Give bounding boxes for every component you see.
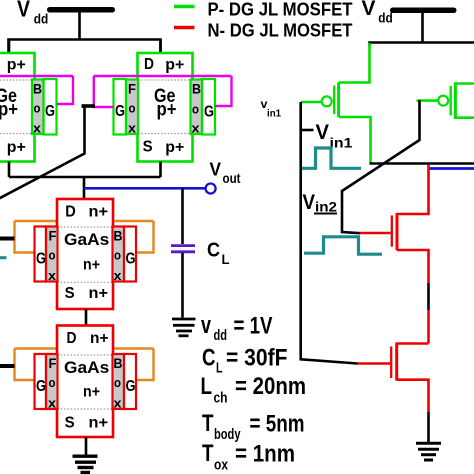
svg-text:G: G bbox=[36, 378, 46, 395]
svg-text:GaAs: GaAs bbox=[64, 358, 109, 377]
Vdd power bar left bbox=[47, 7, 115, 13]
svg-text:x: x bbox=[33, 121, 42, 136]
wire M1 source down bbox=[8, 162, 11, 178]
svg-text:p+: p+ bbox=[165, 139, 184, 156]
svg-text:= 30fF: = 30fF bbox=[226, 345, 288, 372]
svg-text:in1: in1 bbox=[267, 109, 281, 120]
svg-text:o: o bbox=[192, 102, 199, 117]
svg-text:p+: p+ bbox=[157, 100, 177, 121]
transistor Q4 NMOS symbol (right schematic) bbox=[358, 343, 429, 413]
M4 right gate box bbox=[124, 354, 136, 409]
M2 left gate box bbox=[114, 79, 127, 135]
svg-text:x: x bbox=[192, 121, 201, 136]
wire Vdd to left rail bbox=[78, 12, 81, 40]
svg-text:p+: p+ bbox=[7, 57, 26, 74]
Q4 source lead bbox=[397, 380, 429, 412]
M4 left gate box bbox=[35, 354, 47, 409]
svg-text:F: F bbox=[128, 81, 136, 97]
wire input A down-left bbox=[0, 106, 85, 199]
capacitor CL bbox=[171, 246, 195, 252]
svg-text:o: o bbox=[114, 248, 121, 263]
wire to load capacitor bbox=[181, 188, 184, 244]
svg-text:L: L bbox=[222, 251, 230, 267]
svg-text:G: G bbox=[36, 251, 46, 268]
Vdd label left bbox=[17, 0, 48, 27]
svg-text:L: L bbox=[216, 360, 223, 377]
wire teal fragment bbox=[0, 256, 7, 259]
Vdd power bar right bbox=[390, 8, 457, 14]
svg-text:V: V bbox=[362, 0, 376, 20]
wire Q3-Q4 red segment bbox=[427, 310, 430, 344]
Q4 drain lead bbox=[397, 342, 429, 345]
svg-text:V: V bbox=[17, 0, 31, 22]
M3 dotted junction lines bbox=[58, 227, 113, 282]
svg-text:o: o bbox=[114, 375, 121, 390]
Q2 drain lead bbox=[454, 116, 474, 119]
Vdd label right bbox=[362, 0, 393, 26]
M1 right gate box bbox=[44, 79, 57, 135]
svg-text:n+: n+ bbox=[83, 384, 100, 401]
svg-text:P- DG JL MOSFET: P- DG JL MOSFET bbox=[208, 0, 353, 20]
svg-text:x: x bbox=[48, 268, 57, 283]
waveform Vin2 teal bbox=[304, 237, 382, 254]
node Vout terminal bbox=[206, 184, 216, 194]
Q2 gate bubble bbox=[438, 96, 448, 106]
svg-text:o: o bbox=[34, 101, 41, 116]
transistor M1 PMOS cross-section (left, clipped) bbox=[0, 40, 73, 178]
M3 left gate box bbox=[35, 227, 47, 282]
M1 dotted junction lines bbox=[0, 80, 34, 134]
svg-text:p+: p+ bbox=[7, 139, 26, 156]
svg-text:x: x bbox=[114, 396, 123, 411]
transistor M2 PMOS cross-section bbox=[94, 40, 232, 178]
Q2 source lead bbox=[454, 82, 474, 85]
svg-text:D: D bbox=[144, 56, 154, 73]
transistor Q3 NMOS symbol (right schematic) bbox=[360, 165, 429, 284]
M2 dotted junction lines bbox=[138, 80, 192, 134]
wire M1 drain to rail bbox=[8, 40, 11, 54]
Q1 drain lead bbox=[339, 117, 371, 163]
CL label bbox=[207, 240, 230, 268]
svg-text:N- DG JL MOSFET: N- DG JL MOSFET bbox=[208, 21, 353, 41]
M3 body bbox=[57, 199, 113, 309]
wire M3 source to M4 drain bbox=[85, 309, 88, 326]
M3 gate wire orange bbox=[15, 221, 154, 253]
wire M2 drain to rail bbox=[159, 40, 162, 54]
Vin1 label bbox=[301, 121, 353, 151]
svg-text:V: V bbox=[303, 191, 316, 214]
svg-text:T: T bbox=[202, 440, 214, 467]
Q3 gate lead bbox=[360, 232, 391, 235]
svg-text:D: D bbox=[67, 330, 77, 347]
wire M2 source down bbox=[159, 162, 162, 178]
Q3 channel bar bbox=[396, 213, 399, 250]
wire Vin1 net black bbox=[301, 102, 358, 364]
transistor Q2 PMOS symbol (right schematic) bbox=[417, 84, 474, 118]
wire left top rail bbox=[9, 40, 161, 54]
svg-text:S: S bbox=[65, 415, 75, 432]
small vin1 label bbox=[261, 97, 282, 120]
svg-text:F: F bbox=[49, 355, 57, 371]
Q3 source lead bbox=[397, 250, 429, 283]
wire PMOS common source rail bbox=[9, 176, 161, 179]
svg-text:B: B bbox=[33, 81, 42, 97]
svg-text:B: B bbox=[114, 355, 123, 371]
wire M4 source to ground bbox=[85, 437, 88, 456]
svg-text:n+: n+ bbox=[90, 330, 109, 347]
parameter text vdd bbox=[201, 312, 273, 344]
M2 body bbox=[138, 53, 193, 162]
Q3 gate bar bbox=[391, 215, 393, 246]
svg-text:= 1nm: = 1nm bbox=[235, 441, 295, 468]
Q4 gate lead bbox=[358, 362, 391, 365]
parameter text Lch bbox=[201, 373, 307, 407]
Vout label bbox=[210, 160, 241, 187]
svg-text:x: x bbox=[48, 396, 57, 411]
M2 Box oxide bbox=[191, 80, 203, 135]
Q1 gate bubble bbox=[322, 96, 332, 106]
M1 gate wire magenta bbox=[0, 76, 73, 104]
svg-text:G: G bbox=[126, 251, 136, 268]
wire right top rail bbox=[370, 43, 474, 47]
wire capacitor to ground bbox=[181, 253, 184, 318]
svg-text:o: o bbox=[49, 248, 56, 263]
svg-text:C: C bbox=[202, 345, 216, 372]
Q2 gate lead bbox=[417, 99, 439, 102]
Q4 gate bar bbox=[390, 347, 392, 379]
svg-text:V: V bbox=[210, 160, 222, 180]
parameter text Tox bbox=[202, 440, 295, 474]
Q1 source lead bbox=[339, 43, 370, 83]
ground capacitor bbox=[172, 319, 196, 336]
M3 Fox oxide bbox=[46, 227, 58, 282]
wire right output node bbox=[370, 162, 474, 165]
svg-text:= 1V: = 1V bbox=[234, 313, 273, 340]
svg-text:x: x bbox=[128, 121, 137, 136]
svg-text:G: G bbox=[115, 103, 125, 120]
parameter text Tbody bbox=[202, 410, 305, 443]
svg-text:in1: in1 bbox=[330, 135, 353, 151]
Vin2 label bbox=[303, 191, 338, 215]
svg-text:o: o bbox=[129, 101, 136, 116]
M4 dotted junction lines bbox=[58, 355, 113, 409]
wire Vout blue bbox=[84, 187, 206, 190]
Q2 channel bar bbox=[454, 84, 457, 118]
Q2 gate bar bbox=[450, 86, 452, 116]
M3 right gate box bbox=[124, 227, 136, 282]
svg-text:C: C bbox=[207, 240, 220, 262]
transistor M4 NMOS cross-section (bottom GaAs) bbox=[0, 326, 154, 456]
Q1 channel bar bbox=[337, 83, 340, 118]
Q1 gate lead bbox=[301, 101, 322, 104]
svg-text:L: L bbox=[201, 373, 213, 400]
wire rail to NMOS drain bbox=[83, 177, 86, 199]
svg-text:T: T bbox=[202, 410, 214, 437]
ground right bbox=[416, 443, 441, 460]
svg-text:= 20nm: = 20nm bbox=[235, 373, 306, 400]
svg-text:F: F bbox=[49, 228, 57, 244]
svg-text:S: S bbox=[143, 139, 153, 156]
svg-text:G: G bbox=[45, 103, 55, 120]
M2 Fox oxide bbox=[126, 80, 138, 135]
wire right Vout blue bbox=[429, 167, 474, 170]
M1 body bbox=[0, 53, 35, 162]
svg-text:B: B bbox=[192, 81, 201, 97]
svg-text:out: out bbox=[223, 170, 241, 186]
svg-text:G: G bbox=[204, 104, 214, 121]
parameter text CL bbox=[202, 345, 288, 377]
M4 Fox oxide bbox=[46, 354, 58, 409]
svg-text:GaAs: GaAs bbox=[64, 230, 109, 249]
svg-text:n+: n+ bbox=[83, 256, 100, 273]
svg-text:dd: dd bbox=[34, 11, 49, 27]
node input C stub bbox=[0, 364, 15, 368]
legend P-DG line bbox=[174, 5, 195, 8]
svg-text:p+: p+ bbox=[165, 57, 184, 74]
svg-text:D: D bbox=[65, 204, 76, 221]
svg-text:ox: ox bbox=[214, 457, 229, 474]
M2 right gate box bbox=[202, 79, 215, 135]
wire Vdd to right rail bbox=[421, 13, 424, 43]
svg-text:ch: ch bbox=[214, 390, 228, 407]
svg-text:G: G bbox=[126, 378, 136, 395]
M2 gate wire magenta bbox=[94, 76, 232, 107]
M4 gate wire orange bbox=[15, 349, 154, 381]
svg-text:p+: p+ bbox=[0, 100, 18, 121]
svg-text:= 5nm: = 5nm bbox=[250, 411, 305, 438]
M4 Box oxide bbox=[113, 354, 125, 409]
M3 Box oxide bbox=[113, 227, 125, 282]
ground M4 bbox=[73, 456, 98, 472]
svg-text:x: x bbox=[114, 268, 123, 283]
svg-text:n+: n+ bbox=[89, 415, 109, 432]
svg-text:o: o bbox=[49, 375, 56, 390]
svg-text:n+: n+ bbox=[89, 204, 109, 221]
Q4 channel bar bbox=[395, 343, 398, 381]
wire Q2 gate to Vin2 net bbox=[342, 100, 420, 233]
svg-text:in2: in2 bbox=[315, 199, 337, 215]
node input A stub bbox=[82, 104, 96, 108]
wire Q3-Q4 black segment bbox=[427, 283, 430, 310]
svg-text:V: V bbox=[316, 121, 330, 144]
svg-text:dd: dd bbox=[214, 327, 228, 344]
M1 Box oxide bbox=[32, 80, 44, 135]
svg-text:v: v bbox=[201, 312, 211, 339]
wire Q4 source to ground bbox=[427, 412, 430, 443]
transistor Q1 PMOS symbol (right schematic) bbox=[301, 43, 371, 163]
node input B stub bbox=[0, 237, 15, 241]
waveform Vin1 teal bbox=[302, 148, 361, 168]
svg-text:B: B bbox=[114, 228, 123, 244]
Q3 drain lead bbox=[397, 165, 429, 215]
svg-text:n+: n+ bbox=[89, 285, 109, 302]
transistor M3 NMOS cross-section (top GaAs) bbox=[0, 199, 154, 326]
Q1 gate bar bbox=[333, 86, 335, 115]
M4 body bbox=[57, 326, 113, 438]
legend N-DG line bbox=[174, 26, 195, 29]
svg-text:S: S bbox=[65, 285, 75, 302]
